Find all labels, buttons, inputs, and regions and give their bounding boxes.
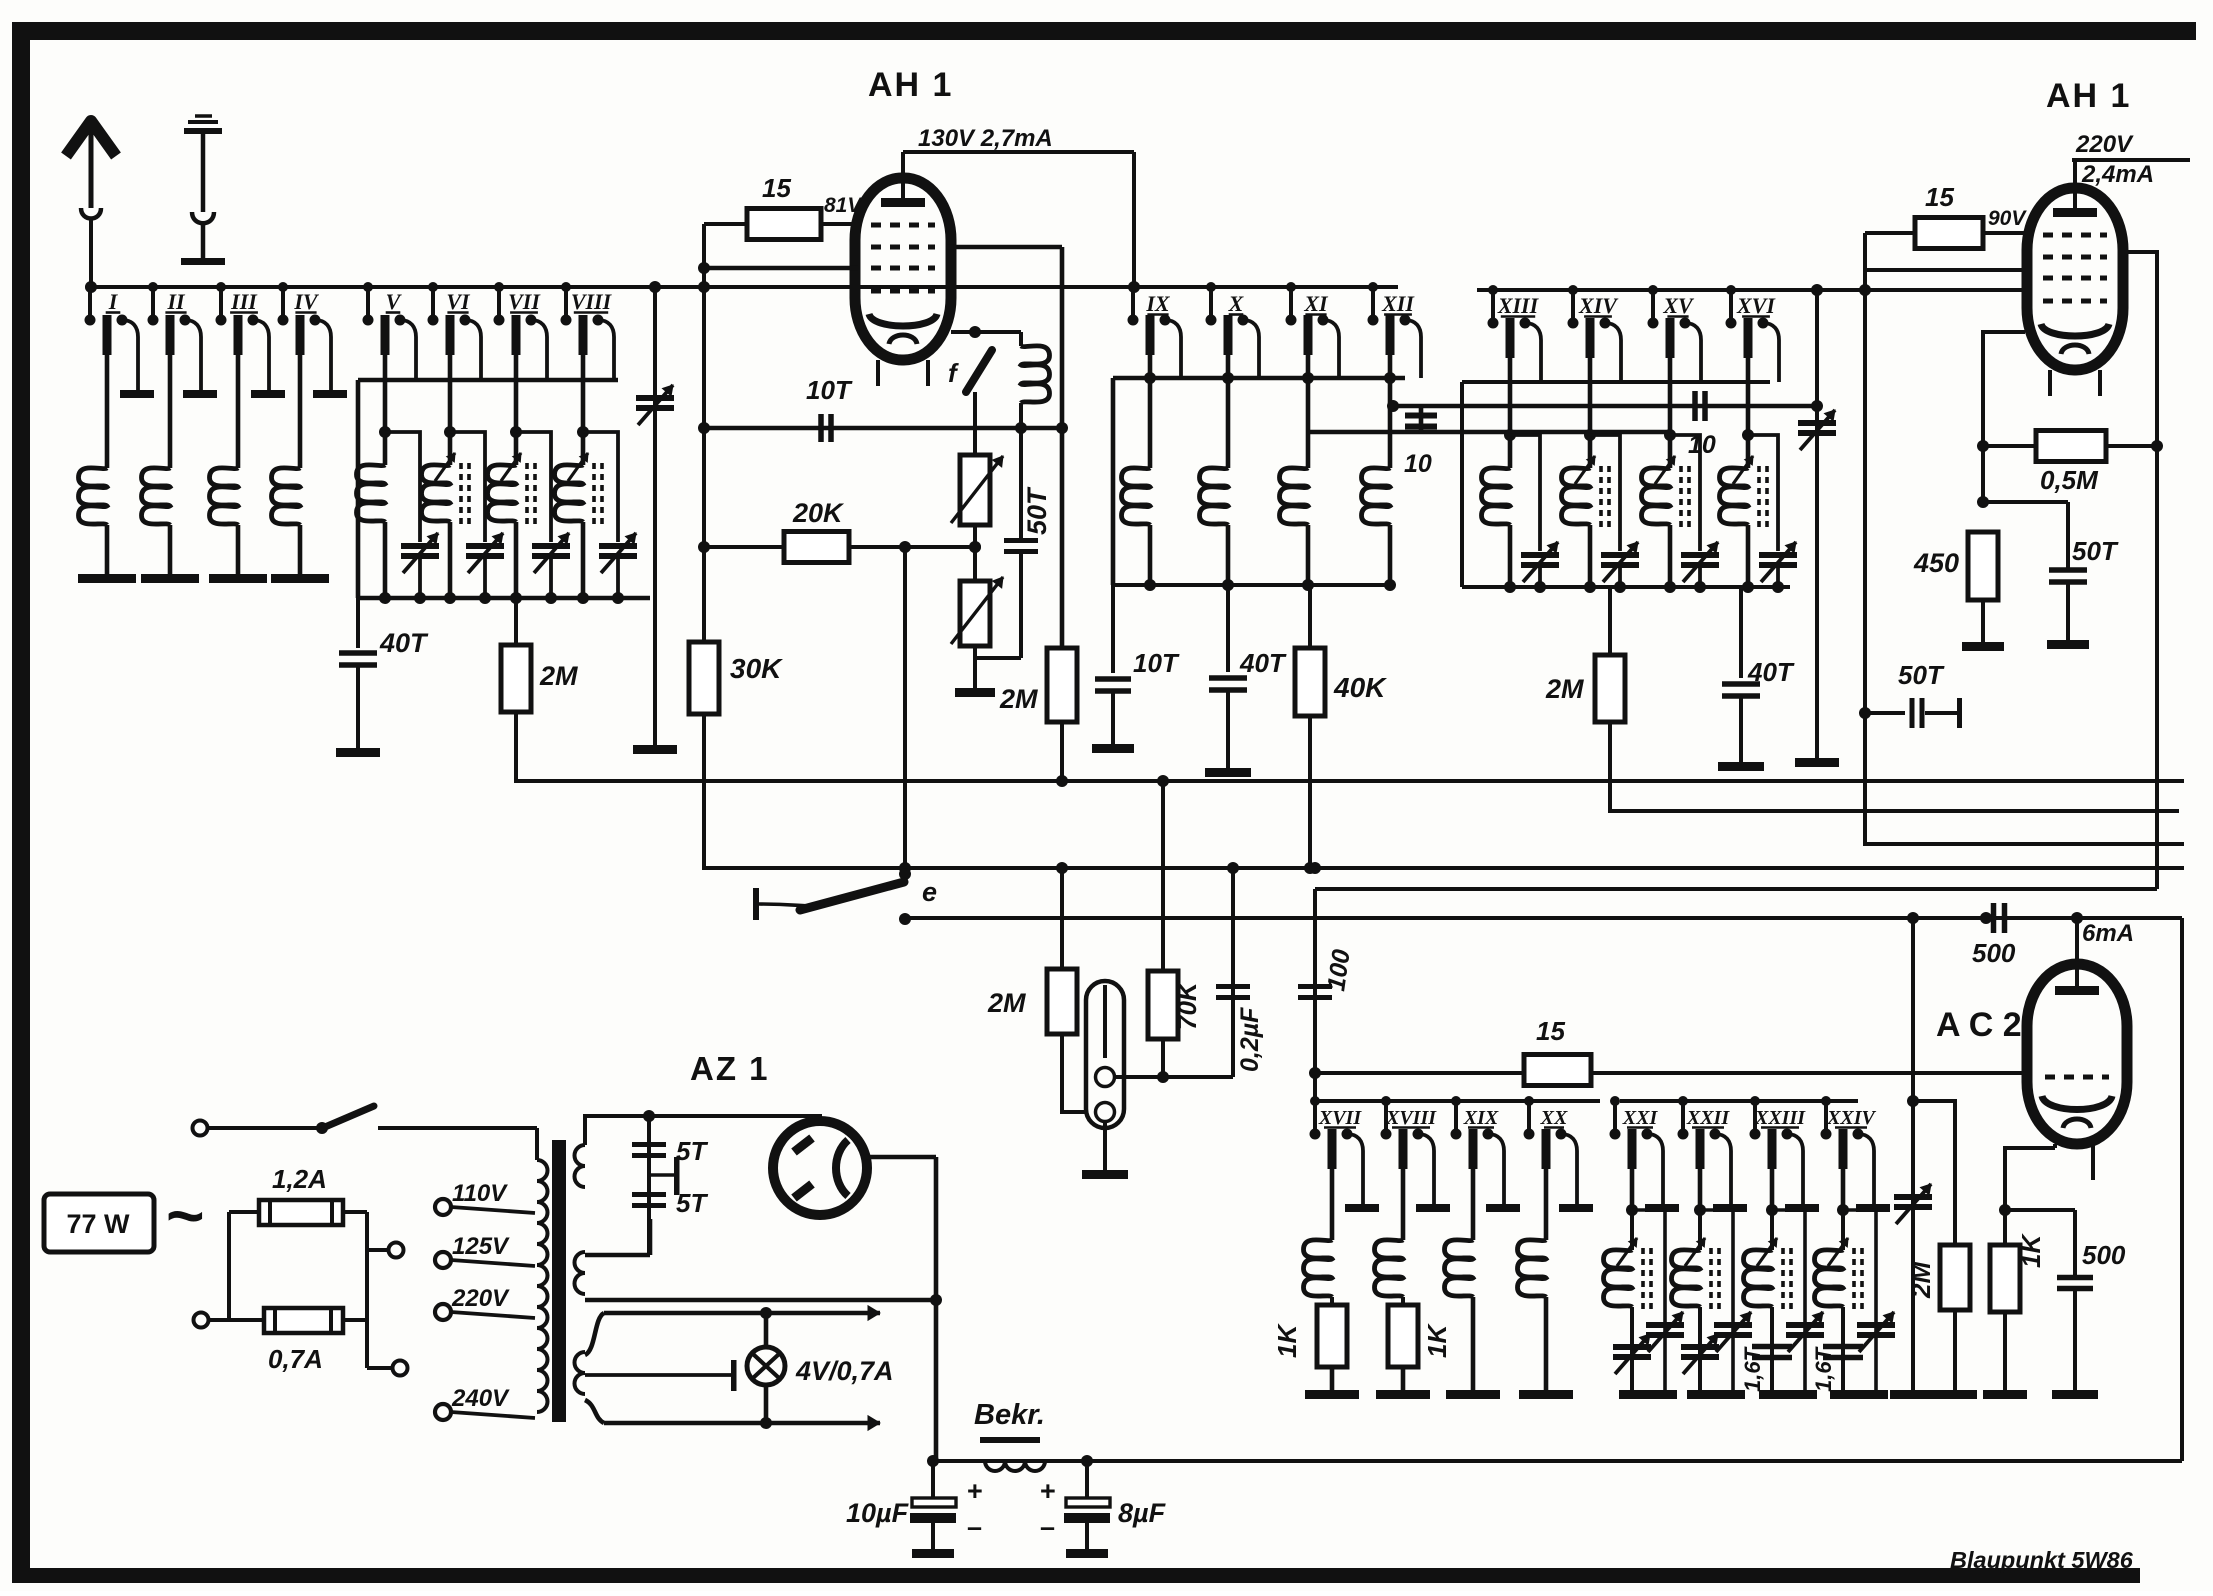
svg-text:XVII: XVII (1318, 1107, 1362, 1129)
svg-text:500: 500 (2082, 1240, 2126, 1270)
svg-text:0,2µF: 0,2µF (1236, 1007, 1264, 1072)
svg-text:Bekr.: Bekr. (974, 1399, 1045, 1431)
svg-text:XX: XX (1540, 1107, 1568, 1129)
svg-text:Blaupunkt 5W86: Blaupunkt 5W86 (1950, 1547, 2134, 1573)
svg-text:+: + (1040, 1476, 1056, 1506)
svg-text:4V/0,7A: 4V/0,7A (795, 1356, 894, 1386)
svg-text:1K: 1K (1272, 1323, 1302, 1358)
svg-text:40T: 40T (1747, 657, 1795, 687)
svg-text:130V 2,7mA: 130V 2,7mA (918, 125, 1053, 152)
svg-text:e: e (922, 877, 937, 907)
svg-text:XIII: XIII (1497, 293, 1540, 318)
svg-text:2,4mA: 2,4mA (2081, 161, 2154, 188)
svg-text:XV: XV (1662, 293, 1695, 318)
svg-text:125V: 125V (452, 1233, 510, 1260)
svg-text:IV: IV (293, 289, 320, 314)
svg-text:10µF: 10µF (846, 1498, 910, 1528)
svg-text:1,6T: 1,6T (1811, 1346, 1836, 1392)
svg-text:70K: 70K (1172, 980, 1202, 1030)
svg-text:100: 100 (1322, 948, 1356, 993)
svg-text:10T: 10T (806, 375, 853, 405)
svg-text:8µF: 8µF (1118, 1498, 1167, 1528)
svg-text:15: 15 (762, 173, 791, 203)
svg-text:XXIII: XXIII (1754, 1107, 1806, 1129)
svg-text:5T: 5T (676, 1188, 708, 1218)
svg-text:AH 1: AH 1 (868, 66, 953, 104)
svg-text:40K: 40K (1333, 672, 1387, 703)
svg-text:IX: IX (1145, 291, 1171, 316)
svg-text:X: X (1228, 291, 1245, 316)
svg-text:1,6T: 1,6T (1740, 1346, 1765, 1392)
svg-text:2M: 2M (987, 988, 1026, 1018)
svg-text:II: II (166, 289, 186, 314)
svg-text:40T: 40T (1239, 648, 1287, 678)
svg-text:XXI: XXI (1622, 1107, 1659, 1129)
svg-text:50T: 50T (2072, 536, 2119, 566)
svg-text:VIII: VIII (571, 289, 613, 314)
svg-text:2M: 2M (1545, 674, 1584, 704)
svg-text:40T: 40T (379, 628, 429, 658)
svg-text:+: + (967, 1476, 983, 1506)
svg-text:–: – (967, 1512, 982, 1542)
svg-text:–: – (1040, 1512, 1055, 1542)
svg-text:AH 1: AH 1 (2046, 77, 2131, 115)
svg-text:30K: 30K (730, 653, 783, 684)
svg-text:XI: XI (1303, 291, 1329, 316)
svg-text:~: ~ (166, 1178, 205, 1252)
svg-text:A C 2: A C 2 (1936, 1006, 2022, 1044)
svg-text:81V: 81V (824, 194, 863, 217)
svg-text:77 W: 77 W (66, 1209, 130, 1239)
svg-text:XVI: XVI (1736, 293, 1776, 318)
svg-text:10T: 10T (1133, 648, 1180, 678)
svg-text:XXII: XXII (1686, 1107, 1730, 1129)
svg-text:XXIV: XXIV (1826, 1107, 1876, 1129)
svg-text:0,5M: 0,5M (2040, 465, 2099, 495)
svg-text:450: 450 (1913, 548, 1959, 578)
svg-text:III: III (230, 289, 258, 314)
svg-text:1,2A: 1,2A (272, 1164, 327, 1194)
svg-text:2M: 2M (539, 661, 578, 691)
svg-text:2M: 2M (1906, 1261, 1936, 1299)
svg-text:XII: XII (1381, 291, 1415, 316)
svg-text:110V: 110V (452, 1180, 508, 1207)
svg-text:20K: 20K (792, 498, 845, 528)
svg-text:220V: 220V (451, 1285, 510, 1312)
svg-text:15: 15 (1536, 1016, 1565, 1046)
svg-text:500: 500 (1972, 938, 2016, 968)
svg-text:XIX: XIX (1463, 1107, 1499, 1129)
svg-text:6mA: 6mA (2082, 920, 2134, 947)
svg-text:VI: VI (446, 289, 471, 314)
svg-text:90V: 90V (1988, 207, 2027, 230)
svg-text:50T: 50T (1022, 486, 1052, 535)
svg-text:XIV: XIV (1578, 293, 1619, 318)
svg-text:1K: 1K (1422, 1323, 1452, 1358)
svg-text:15: 15 (1925, 182, 1954, 212)
svg-text:220V: 220V (2075, 131, 2134, 158)
svg-text:5T: 5T (676, 1136, 708, 1166)
svg-text:10: 10 (1404, 450, 1432, 478)
svg-text:I: I (108, 289, 119, 314)
svg-text:1K: 1K (2016, 1233, 2046, 1268)
svg-text:240V: 240V (451, 1385, 510, 1412)
svg-text:50T: 50T (1898, 660, 1945, 690)
svg-text:XVIII: XVIII (1385, 1107, 1437, 1129)
svg-text:2M: 2M (999, 684, 1038, 714)
svg-text:V: V (386, 289, 403, 314)
svg-text:VII: VII (508, 289, 541, 314)
svg-text:AZ 1: AZ 1 (690, 1050, 770, 1087)
svg-text:0,7A: 0,7A (268, 1344, 323, 1374)
